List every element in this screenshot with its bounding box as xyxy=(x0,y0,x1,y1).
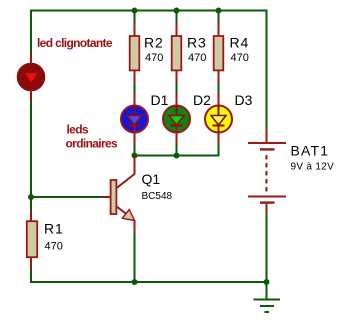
svg-text:R1: R1 xyxy=(44,221,64,237)
svg-text:R2: R2 xyxy=(144,35,164,51)
svg-text:BAT1: BAT1 xyxy=(291,143,330,159)
wire D3 to mid bus xyxy=(218,144,220,157)
wire top bus xyxy=(30,10,268,12)
wire bottom bus xyxy=(30,281,267,283)
svg-text:9V à 12V: 9V à 12V xyxy=(291,162,335,173)
wire right rail upper xyxy=(266,10,268,129)
wire D2 to mid bus xyxy=(176,144,178,157)
wire R4 to D3 xyxy=(218,84,220,95)
wire mid bus (LED cathode bus) xyxy=(135,155,220,157)
svg-text:470: 470 xyxy=(145,52,163,64)
wire left rail upper xyxy=(30,10,32,54)
wire R3 top stub xyxy=(176,11,178,24)
junction dot mid bus at D2 xyxy=(174,153,180,159)
svg-text:R4: R4 xyxy=(230,35,250,51)
svg-text:BC548: BC548 xyxy=(142,191,173,202)
resistor R2 xyxy=(130,23,140,85)
wire R2 top stub xyxy=(134,11,136,24)
junction dot top of R4 xyxy=(216,8,222,14)
resistor R3 xyxy=(172,23,182,85)
svg-text:leds: leds xyxy=(67,123,89,137)
junction dot emitter node xyxy=(132,279,138,285)
LED D1 (blue) xyxy=(121,94,148,145)
svg-text:Q1: Q1 xyxy=(142,171,161,187)
wire left rail to R1 xyxy=(30,197,32,211)
transistor Q1 (BC548 NPN) xyxy=(103,156,135,233)
wire D1 to mid bus xyxy=(134,144,136,157)
wire emitter to bottom bus xyxy=(134,233,136,284)
svg-text:R3: R3 xyxy=(187,35,207,51)
svg-text:D3: D3 xyxy=(235,92,253,108)
junction dot ground node xyxy=(264,279,270,285)
wire R2 to D1 xyxy=(134,84,136,95)
svg-text:ordinaires: ordinaires xyxy=(66,137,118,151)
svg-text:led clignotante: led clignotante xyxy=(37,36,113,50)
svg-text:470: 470 xyxy=(45,241,63,253)
battery BAT1 xyxy=(248,128,286,214)
junction dot top of R3 xyxy=(174,8,180,14)
svg-text:470: 470 xyxy=(231,52,249,64)
wire left rail lower xyxy=(30,271,32,283)
junction dot mid bus at D1/collector xyxy=(132,153,138,159)
LED D3 (yellow) xyxy=(205,94,232,145)
wire R4 top stub xyxy=(218,11,220,24)
wire left rail middle xyxy=(30,102,32,198)
LED D2 (green) xyxy=(163,94,190,145)
svg-text:D1: D1 xyxy=(151,92,169,108)
wire R3 to D2 xyxy=(176,84,178,95)
resistor R1 xyxy=(27,210,37,272)
ground symbol xyxy=(254,282,281,312)
junction dot node base-left xyxy=(28,194,34,200)
wire base (from node to Q1) xyxy=(31,196,103,198)
resistor R4 xyxy=(214,23,224,85)
svg-text:D2: D2 xyxy=(193,92,211,108)
junction dot top of R2 xyxy=(132,8,138,14)
led clignotante (flashing LED) xyxy=(18,53,45,103)
wire right rail lower xyxy=(266,213,268,282)
svg-text:470: 470 xyxy=(188,52,206,64)
